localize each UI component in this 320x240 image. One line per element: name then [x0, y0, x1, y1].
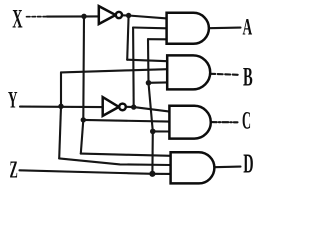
inverter U2 (Y) triangle — [103, 97, 119, 116]
svg-text:X: X — [12, 4, 22, 34]
wire X vertical — [81, 16, 84, 153]
wire X' to gate B input 1 — [127, 60, 167, 62]
junction dot Z to D — [149, 171, 155, 177]
wire Z input — [20, 170, 153, 174]
wire output C — [211, 121, 238, 123]
junction dot Z to C — [150, 129, 156, 135]
AND gate A — [167, 13, 209, 44]
wire Z to gate B input 3 — [149, 81, 168, 84]
AND gate B — [167, 55, 210, 89]
wire output D — [214, 166, 240, 169]
svg-text:B: B — [243, 62, 253, 92]
wire Y to gate B input 2 — [61, 69, 167, 72]
wire Y vertical — [59, 72, 61, 158]
wire X' vertical — [127, 16, 128, 60]
wire Z vertical — [148, 39, 153, 174]
svg-text:C: C — [242, 107, 251, 135]
junction dot Z to B — [146, 80, 152, 86]
wire Y' to gate A input 2 — [133, 26, 167, 29]
inverter U2 bubble — [119, 104, 126, 111]
junction dot X/inverter1 — [81, 14, 86, 19]
wire X' output to gate A input 1 — [122, 15, 167, 18]
wire X to gate C input 2 — [83, 120, 169, 122]
wire X input — [27, 16, 49, 18]
svg-text:A: A — [243, 15, 253, 41]
AND gate C — [169, 106, 210, 139]
wire Y to gate D input 2 — [59, 158, 171, 165]
wire Y' vertical — [132, 28, 135, 108]
svg-text:D: D — [243, 149, 253, 179]
wire X to gate D input 1 — [81, 154, 171, 156]
wire Z to gate A input 3 — [148, 38, 167, 40]
junction dot X net to C — [81, 117, 86, 122]
svg-text:Z: Z — [10, 157, 18, 183]
wire Z to gate D input 3 — [152, 173, 170, 175]
junction dot X' output — [126, 13, 131, 18]
AND gate D — [171, 152, 215, 183]
wire output A — [209, 27, 241, 30]
wire Y' output to gate C input 1 — [126, 107, 170, 112]
svg-text:Y: Y — [8, 88, 18, 114]
junction dot Y/vertical — [58, 104, 63, 109]
wire Z to gate C input 3 — [153, 130, 170, 132]
wire Y input — [20, 106, 103, 109]
inverter U1 (X) triangle — [99, 6, 116, 24]
junction dot Y' output — [131, 104, 136, 109]
wire output B — [210, 74, 238, 75]
inverter U1 bubble — [116, 12, 122, 18]
